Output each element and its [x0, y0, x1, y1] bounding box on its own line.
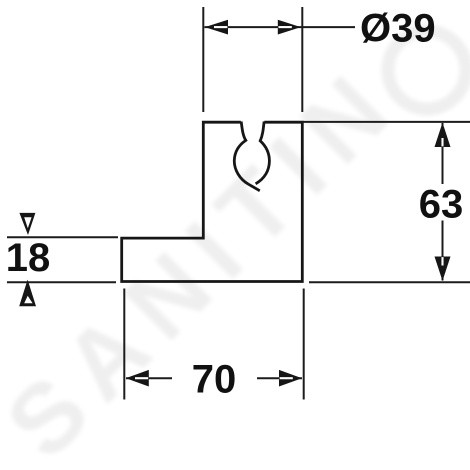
dim 63 bottom extension line — [309, 281, 470, 283]
dim 18 bottom extension line — [7, 281, 116, 283]
dim 70 right arrow — [279, 370, 302, 387]
dim 18 down open arrow — [19, 213, 35, 235]
dim 70 left arrow — [126, 370, 149, 387]
part outline (holder body + base) — [122, 122, 303, 281]
dim 70 right extension line — [303, 289, 305, 400]
dim 63 down arrow — [435, 257, 451, 281]
dim 18 up open arrow — [19, 280, 36, 307]
dim Ø39 right extension line — [301, 7, 303, 112]
dim 63 dimension line upper — [442, 123, 444, 184]
keyhole slot right branch — [256, 122, 270, 184]
dim Ø39 left extension line — [202, 7, 204, 112]
dim 63 top extension line (part top edge extended) — [302, 121, 470, 123]
dim Ø39 right arrow — [278, 20, 301, 35]
svg-text:70: 70 — [192, 358, 237, 402]
dim 70 dimension line right — [257, 377, 302, 379]
dim 70 left extension line — [123, 289, 125, 400]
dim 63 up arrow — [435, 123, 451, 147]
dim 18 top extension line — [7, 236, 118, 238]
dim Ø39 left arrow — [205, 20, 228, 35]
svg-text:18: 18 — [6, 236, 51, 280]
watermark ring O — [388, 31, 466, 109]
svg-text:Ø39: Ø39 — [360, 7, 436, 51]
keyhole slot left branch — [234, 122, 260, 191]
dim Ø39 dimension line — [205, 26, 356, 28]
dim 63 dimension line lower — [442, 221, 444, 281]
svg-text:63: 63 — [419, 183, 464, 227]
dim 70 dimension line left — [126, 377, 172, 379]
